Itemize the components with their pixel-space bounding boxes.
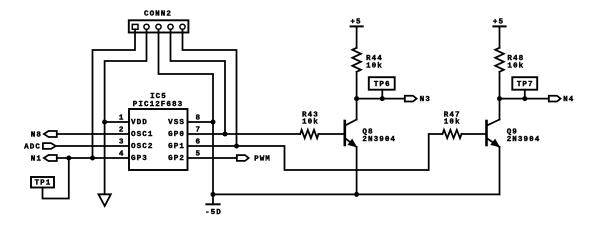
node VDD junction <box>102 120 107 125</box>
CONN2 pin 3 pad <box>156 24 161 29</box>
resistor R47 10k <box>443 130 462 138</box>
svg-text:N4: N4 <box>563 96 574 104</box>
svg-text:PIC12F683: PIC12F683 <box>133 101 183 109</box>
wire TP6 down <box>381 90 383 99</box>
wire ADC to OSC2 <box>56 145 129 147</box>
node -5D rail junction <box>211 192 216 197</box>
svg-text:10k: 10k <box>507 63 524 71</box>
svg-text:N8: N8 <box>31 132 42 140</box>
node Q8 collector junction <box>354 96 359 101</box>
wire N3 node row <box>357 98 405 100</box>
svg-text:TP6: TP6 <box>374 81 391 89</box>
wire CONN2 pin2 to VDD and shield triangle <box>105 29 147 194</box>
svg-text:GP0: GP0 <box>168 131 185 139</box>
node TP6 junction <box>380 96 385 101</box>
wire N1 to GP3 <box>57 157 129 159</box>
wire VDD stub <box>105 121 129 123</box>
svg-text:OSC2: OSC2 <box>131 143 153 151</box>
resistor R43 10k <box>300 130 318 138</box>
testpoint TP1 <box>31 177 54 188</box>
node Q8 emitter rail junction <box>354 192 359 197</box>
transistor Q8 2N3904 <box>343 121 346 145</box>
testpoint TP7 <box>512 77 537 90</box>
svg-text:GP1: GP1 <box>168 143 185 151</box>
svg-text:N1: N1 <box>31 156 42 164</box>
wire R47 to Q9 base <box>462 133 487 135</box>
port PWM <box>237 155 249 161</box>
node GP1 junction <box>234 144 239 149</box>
wire GP1 routed to R47 <box>188 134 442 170</box>
svg-text:10k: 10k <box>302 119 319 127</box>
wire R44 to N3 node <box>356 72 358 99</box>
port N3 <box>405 96 417 102</box>
svg-text:2N3904: 2N3904 <box>507 136 541 144</box>
connector CONN2 <box>129 20 189 32</box>
wire R48 to N4 node <box>499 72 501 99</box>
wire CONN2 pin1 to GP3/N1 node <box>93 29 136 158</box>
svg-text:2N3904: 2N3904 <box>362 136 396 144</box>
wire CONN2 pin3 to VSS / -5D <box>159 29 214 204</box>
wire GP0 to R43 <box>188 133 301 135</box>
svg-text:N3: N3 <box>420 96 431 104</box>
wire N8 to OSC1 <box>57 133 129 135</box>
port N4 <box>549 96 561 102</box>
wire GP2 to PWM port <box>188 157 237 159</box>
wire TP1 to N1 row <box>43 158 69 199</box>
wire N4 node row <box>500 98 549 100</box>
svg-text:+5: +5 <box>350 19 361 27</box>
wire CONN2 pin4 to GP0 <box>171 29 226 134</box>
node GP0 junction <box>223 132 228 137</box>
wire Q8 collector up <box>356 99 358 120</box>
wire CONN2 pin5 to GP1 <box>183 29 237 146</box>
node TP7 junction <box>522 96 527 101</box>
svg-text:CONN2: CONN2 <box>144 11 172 19</box>
resistor R44 10k <box>352 48 361 72</box>
node Q9 collector junction <box>497 96 502 101</box>
wire +5 to R44 <box>356 26 358 47</box>
svg-text:IC5: IC5 <box>150 93 167 101</box>
svg-text:ADC: ADC <box>24 144 41 152</box>
wire TP7 down <box>524 90 526 99</box>
wire +5 to R48 <box>499 26 501 47</box>
wire Q8 emitter down <box>356 147 358 194</box>
transistor Q9 2N3904 <box>485 121 488 145</box>
svg-text:10k: 10k <box>444 119 461 127</box>
node N1/TP1 junction <box>66 156 71 161</box>
wire R43 to Q8 base <box>319 133 345 135</box>
svg-text:VSS: VSS <box>168 119 185 127</box>
CONN2 pin 2 pad <box>144 24 149 29</box>
node VSS junction <box>211 120 216 125</box>
svg-text:TP7: TP7 <box>517 81 534 89</box>
testpoint TP6 <box>369 77 395 90</box>
CONN2 pin 1 pad <box>132 24 138 29</box>
wire emitter rail -5D <box>213 193 500 195</box>
svg-text:+5: +5 <box>493 19 504 27</box>
wire Q9 collector up <box>499 99 501 120</box>
IC U IC5 PIC12F683 body <box>129 109 188 170</box>
node N1/CONN2 junction <box>90 156 95 161</box>
svg-text:-5D: -5D <box>205 209 222 217</box>
svg-text:TP1: TP1 <box>35 180 52 188</box>
svg-text:GP3: GP3 <box>131 155 148 163</box>
shield triangle symbol <box>99 194 111 206</box>
svg-text:10k: 10k <box>366 63 383 71</box>
svg-text:OSC1: OSC1 <box>131 131 153 139</box>
resistor R48 10k <box>495 48 504 72</box>
wire Q9 emitter down <box>499 147 501 194</box>
power -5D bar <box>206 203 219 205</box>
wire VSS stub to node <box>188 121 214 123</box>
svg-text:VDD: VDD <box>131 119 148 127</box>
svg-text:PWM: PWM <box>254 156 271 164</box>
CONN2 pin 4 pad <box>168 24 173 29</box>
svg-text:GP2: GP2 <box>168 155 185 163</box>
CONN2 pin 5 pad <box>180 24 185 29</box>
